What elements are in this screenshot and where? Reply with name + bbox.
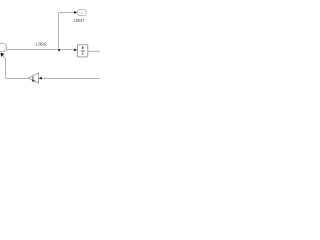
svg-text:s: s [82, 51, 84, 56]
integrator numerator 1 [82, 46, 83, 49]
svg-text:1.8647: 1.8647 [73, 18, 85, 23]
wire: branch up to outport [59, 13, 75, 50]
arrowhead into sum block [1, 53, 5, 57]
gain value glyph stem [32, 76, 35, 80]
arrowhead into integrator [74, 49, 77, 52]
svg-text:1.6642: 1.6642 [35, 41, 47, 46]
wire: diagonal approach into sum bottom [3, 56, 5, 59]
gain value glyph base [32, 80, 35, 81]
node junction dot [58, 49, 60, 51]
gain block triangle (points left) [28, 73, 38, 83]
outport block Out1 (stadium) [77, 10, 86, 16]
wire: feedback from right edge to gain input [42, 78, 100, 80]
wire: gain output left then up to sum [6, 58, 29, 78]
integrator block 1/s [77, 45, 87, 57]
integrator fraction bar [81, 50, 85, 52]
wire: sum output to integrator input [7, 49, 74, 51]
arrowhead into gain [39, 77, 42, 80]
wire: integrator output to right edge [88, 50, 100, 52]
arrowhead into outport [74, 11, 77, 14]
sum block (circle, partially off-canvas left) [0, 43, 7, 52]
